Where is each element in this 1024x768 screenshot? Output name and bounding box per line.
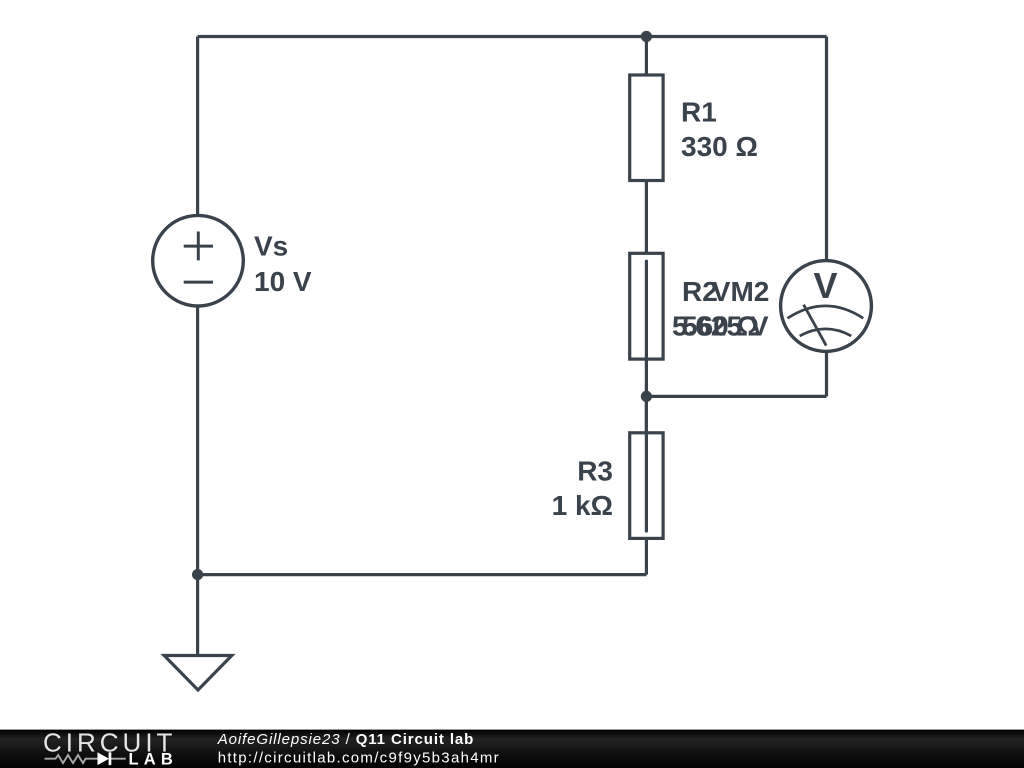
svg-text:V: V: [813, 265, 837, 306]
wire left vertical upper (top wire to Vs top): [196, 37, 199, 217]
node junction dot top: [641, 31, 652, 42]
label R1 330 ohm: [681, 97, 758, 163]
svg-text:330 Ω: 330 Ω: [681, 131, 758, 162]
resistor R2: [630, 253, 663, 359]
label VM2 5.625 V: [672, 276, 769, 341]
wire right vertical lower (VM2 bottom lead): [825, 352, 828, 397]
svg-text:R3: R3: [577, 455, 613, 486]
svg-text:R1: R1: [681, 97, 717, 128]
svg-text:Vs: Vs: [254, 231, 288, 262]
wire between R1 and R2: [645, 181, 648, 254]
wire bottom horizontal: [198, 573, 647, 576]
label R2 560 ohm: [682, 276, 759, 341]
resistor R3: [630, 433, 663, 539]
svg-text:5.625 V: 5.625 V: [672, 310, 769, 341]
label R3 1 kOhm: [552, 455, 613, 520]
wire between R2 and R3 node: [645, 396, 648, 432]
svg-text:10 V: 10 V: [254, 266, 312, 297]
svg-text:1 kΩ: 1 kΩ: [552, 490, 613, 521]
voltmeter VM2: [781, 261, 872, 352]
footer bar: [0, 730, 1024, 768]
wire top horizontal (Vs+ to VM2 top): [198, 35, 827, 38]
node junction dot bottom-left: [192, 569, 203, 580]
resistor R1: [630, 75, 663, 181]
node junction dot middle: [641, 391, 652, 402]
wire overlapping R3 (node to dangling bottom end): [645, 396, 648, 531]
wire overlapping R2 (dangling top end to middle node): [645, 261, 648, 396]
svg-text:http://circuitlab.com/c9f9y5b3: http://circuitlab.com/c9f9y5b3ah4mr: [218, 750, 500, 767]
wire middle horizontal (node to VM2 bottom): [646, 395, 826, 398]
wire right vertical upper (VM2 top lead): [825, 37, 828, 261]
wire R1 top lead: [645, 37, 648, 76]
wire R3 bottom lead: [645, 538, 648, 574]
voltage source Vs: [153, 215, 244, 306]
svg-text:AoifeGillepsie23 / Q11 Circuit: AoifeGillepsie23 / Q11 Circuit lab: [217, 731, 475, 748]
logo resistor zigzag and diode: [45, 755, 126, 763]
svg-text:LAB: LAB: [129, 751, 179, 768]
svg-text:VM2: VM2: [712, 276, 770, 307]
ground: [164, 656, 232, 691]
wire left vertical lower (Vs bottom to ground node): [196, 306, 199, 656]
label Vs 10 V: [254, 231, 312, 297]
